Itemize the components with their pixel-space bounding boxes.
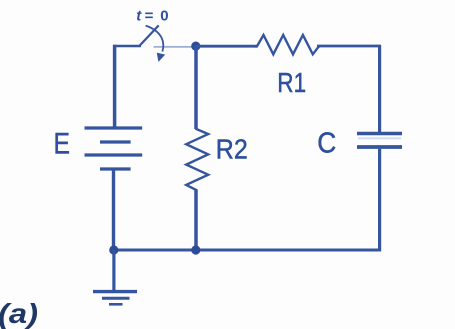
wire: battery bottom lead [112, 171, 115, 252]
svg-text:0: 0 [160, 8, 168, 25]
ground bar 1 [93, 290, 137, 293]
battery E long plate 2 [85, 153, 143, 156]
wire: switch stub from top-left corner [113, 45, 141, 48]
ground stub wire [112, 250, 115, 291]
label t = 0 [136, 8, 168, 25]
svg-text:=: = [145, 8, 154, 25]
capacitor C faint mid reflection [358, 137, 401, 139]
svg-text:C: C [317, 127, 336, 159]
ground bar 3 [109, 303, 123, 306]
wire: left vertical from corner down to battery top [113, 45, 117, 127]
switch S1 blade [139, 25, 158, 46]
node C junction dot (bottom of R2) [191, 245, 200, 254]
wire: bottom rail [113, 249, 381, 252]
battery E short plate 2 [100, 167, 131, 170]
wire: R2 top lead from node A [194, 46, 198, 129]
wire: thin switch contact wire to node A [154, 46, 194, 48]
svg-text:R1: R1 [277, 67, 306, 98]
wire: R2 bottom lead to bottom rail [194, 190, 198, 252]
capacitor C bottom plate [357, 145, 402, 149]
battery E top long plate [85, 126, 143, 129]
switch S1 arrowhead [157, 53, 165, 62]
wire: right vertical down to capacitor [378, 45, 381, 132]
capacitor C top plate [357, 132, 402, 135]
svg-text:R2: R2 [216, 133, 248, 164]
wire: capacitor bottom to bottom rail [378, 149, 381, 252]
resistor R2 zigzag [186, 128, 208, 192]
ground bar 2 [102, 297, 130, 300]
wire: node A to R1 left lead [196, 45, 257, 48]
wire: R1 right lead to top-right corner [317, 46, 380, 48]
switch S1 closing arrow arc [146, 26, 164, 52]
svg-text:E: E [54, 127, 71, 160]
battery E short plate 1 [100, 140, 131, 143]
resistor R1 zigzag [255, 35, 320, 54]
svg-text:(a): (a) [0, 298, 38, 329]
node A junction dot (top of R2) [191, 42, 200, 51]
node B junction dot (battery / ground) [109, 245, 118, 254]
